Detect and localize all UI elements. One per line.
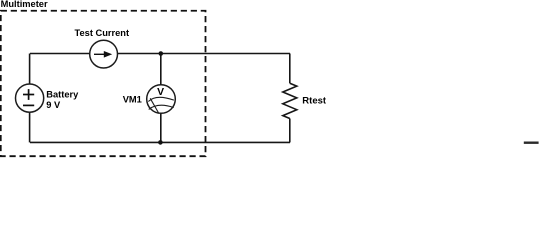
svg-text:VM1: VM1 — [123, 95, 142, 105]
svg-text:Test Current: Test Current — [75, 28, 130, 38]
svg-text:Battery: Battery — [46, 90, 79, 100]
svg-text:V: V — [157, 87, 164, 98]
svg-text:Rtest: Rtest — [302, 96, 327, 107]
svg-text:9 V: 9 V — [46, 100, 61, 110]
svg-text:Multimeter: Multimeter — [1, 0, 48, 9]
